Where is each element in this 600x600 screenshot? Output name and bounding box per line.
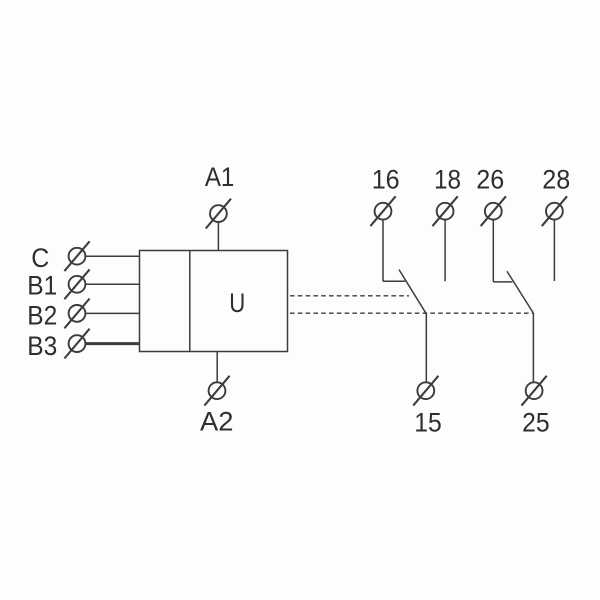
svg-text:28: 28 — [542, 165, 570, 195]
svg-text:18: 18 — [434, 165, 461, 195]
svg-text:A1: A1 — [205, 162, 235, 192]
svg-text:C: C — [31, 243, 49, 273]
svg-text:B3: B3 — [27, 331, 57, 361]
svg-text:15: 15 — [414, 407, 442, 437]
svg-text:B2: B2 — [27, 301, 57, 331]
svg-text:A2: A2 — [200, 406, 234, 436]
svg-text:U: U — [229, 288, 245, 318]
svg-text:16: 16 — [372, 165, 400, 195]
svg-text:B1: B1 — [27, 271, 57, 301]
svg-text:26: 26 — [476, 165, 504, 195]
svg-text:25: 25 — [522, 407, 550, 437]
